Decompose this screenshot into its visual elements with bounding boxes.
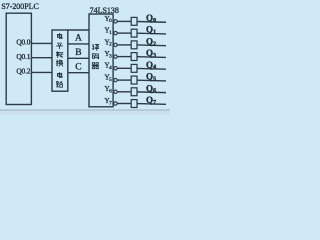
inverter bubble Y4 bbox=[114, 67, 117, 70]
svg-text:C: C bbox=[75, 62, 81, 72]
wire Q0.0 bbox=[31, 42, 52, 44]
svg-text:Q0.1: Q0.1 bbox=[16, 52, 30, 61]
inverter bubble Y0 bbox=[114, 20, 117, 23]
wire Y7 to resistor bbox=[117, 103, 131, 105]
svg-text:7: 7 bbox=[153, 99, 156, 106]
hanzi 平 bbox=[57, 43, 63, 49]
svg-text:0: 0 bbox=[109, 18, 112, 24]
wire Y3 to resistor bbox=[117, 56, 131, 58]
svg-text:5: 5 bbox=[153, 76, 156, 83]
inverter bubble Y5 bbox=[114, 78, 117, 81]
level-converter block bbox=[52, 30, 68, 91]
svg-text:5: 5 bbox=[109, 77, 112, 83]
svg-text:1: 1 bbox=[109, 30, 112, 36]
wire C bbox=[68, 72, 89, 74]
svg-text:Q: Q bbox=[146, 95, 153, 105]
svg-text:Q0.0: Q0.0 bbox=[16, 37, 30, 46]
svg-text:7: 7 bbox=[109, 100, 112, 106]
resistor box R3 bbox=[131, 53, 137, 61]
hanzi 电 bbox=[58, 72, 63, 77]
hanzi 转 bbox=[56, 52, 63, 58]
resistor box R6 bbox=[131, 88, 137, 96]
wire Y1 to resistor bbox=[117, 32, 131, 34]
wire resistor to Q3 bbox=[137, 56, 166, 59]
svg-text:74LS138: 74LS138 bbox=[90, 6, 119, 15]
ladder top edge bbox=[68, 29, 89, 31]
wire resistor to Q4 bbox=[137, 67, 166, 70]
hanzi 电 bbox=[58, 33, 63, 38]
svg-text:B: B bbox=[75, 48, 81, 58]
svg-text:Q: Q bbox=[146, 72, 153, 82]
hanzi 换 bbox=[56, 60, 63, 66]
resistor box R2 bbox=[131, 41, 137, 49]
svg-text:1: 1 bbox=[153, 29, 156, 36]
bottom page rule bbox=[0, 110, 170, 111]
svg-text:Q: Q bbox=[146, 60, 153, 70]
svg-text:A: A bbox=[75, 33, 82, 43]
svg-text:Q: Q bbox=[146, 25, 153, 35]
svg-text:6: 6 bbox=[109, 89, 112, 95]
svg-text:Q: Q bbox=[146, 48, 153, 58]
resistor box R1 bbox=[131, 29, 137, 37]
wire resistor to Q7 bbox=[137, 103, 166, 106]
wire Y0 to resistor bbox=[117, 20, 131, 22]
wire resistor to Q0 bbox=[137, 21, 166, 24]
wire resistor to Q5 bbox=[137, 79, 166, 82]
wire Y4 to resistor bbox=[117, 67, 131, 69]
wire resistor to Q1 bbox=[137, 32, 166, 35]
resistor box R0 bbox=[131, 17, 137, 25]
svg-text:3: 3 bbox=[109, 53, 112, 59]
resistor box R4 bbox=[131, 64, 137, 72]
svg-text:Q: Q bbox=[146, 37, 153, 47]
wire Y2 to resistor bbox=[117, 44, 131, 46]
resistor box R7 bbox=[131, 100, 137, 108]
inverter bubble Y1 bbox=[114, 31, 117, 34]
wire B bbox=[68, 57, 89, 59]
hanzi 路 bbox=[56, 81, 62, 87]
svg-text:2: 2 bbox=[153, 40, 156, 47]
svg-text:6: 6 bbox=[153, 87, 156, 94]
svg-text:3: 3 bbox=[153, 52, 156, 59]
hanzi 译 bbox=[92, 44, 98, 50]
svg-text:Q: Q bbox=[146, 83, 153, 93]
resistor box R5 bbox=[131, 76, 137, 84]
inverter bubble Y6 bbox=[114, 90, 117, 93]
hanzi 码 bbox=[92, 54, 99, 59]
wire Y5 to resistor bbox=[117, 79, 131, 81]
inverter bubble Y2 bbox=[114, 43, 117, 46]
wire resistor to Q6 bbox=[137, 91, 166, 94]
wire Q0.1 bbox=[31, 57, 52, 59]
wire Q0.2 bbox=[31, 71, 52, 73]
inverter bubble Y3 bbox=[114, 55, 117, 58]
svg-text:4: 4 bbox=[109, 65, 112, 71]
svg-text:Q0.2: Q0.2 bbox=[16, 67, 30, 76]
svg-text:S7-200PLC: S7-200PLC bbox=[1, 2, 38, 11]
inverter bubble Y7 bbox=[114, 102, 117, 105]
svg-text:Q: Q bbox=[146, 13, 153, 23]
wire A bbox=[68, 43, 89, 45]
svg-text:0: 0 bbox=[153, 17, 156, 24]
wire resistor to Q2 bbox=[137, 44, 166, 47]
wire Y6 to resistor bbox=[117, 91, 131, 93]
decoder block 74LS138 bbox=[89, 14, 113, 107]
PLC block S7-200 bbox=[6, 13, 31, 104]
svg-text:2: 2 bbox=[109, 42, 112, 48]
hanzi 器 bbox=[92, 63, 99, 69]
